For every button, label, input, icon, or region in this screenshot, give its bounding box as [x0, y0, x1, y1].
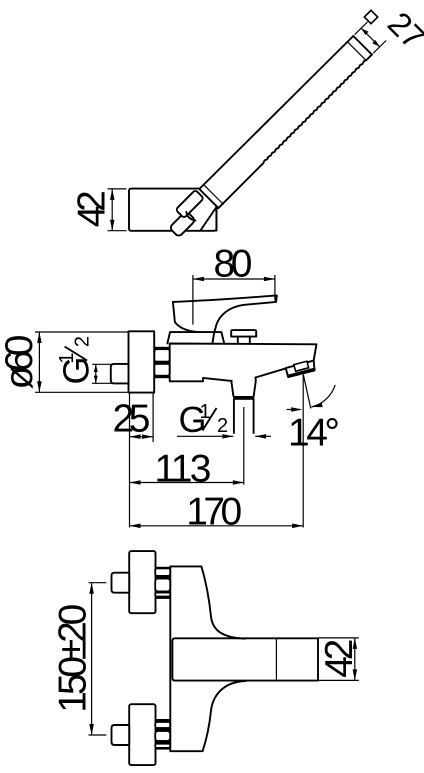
head right edge	[216, 206, 218, 230]
body panel	[170, 566, 245, 751]
handle end seam	[348, 42, 367, 61]
svg-text:150±20: 150±20	[52, 604, 95, 713]
dimension square 27 (handle section)	[355, 5, 424, 57]
dimension 25 (flange depth)	[113, 394, 154, 528]
spout divider	[275, 638, 277, 680]
dimension G half (outlet)	[177, 399, 271, 440]
outlet centerline	[243, 407, 245, 485]
svg-text:ø60: ø60	[0, 335, 41, 390]
joint web line	[201, 207, 217, 231]
bottom union nut (plan)	[155, 719, 170, 750]
handle lower edge with grip serration	[218, 55, 372, 209]
dimension 42 (spout width)	[318, 638, 361, 681]
dimension 14 degrees	[287, 375, 341, 528]
square symbol	[364, 10, 377, 23]
svg-text:42: 42	[71, 190, 114, 227]
dimension 170	[130, 490, 304, 533]
shower head	[129, 189, 216, 231]
body and spout	[170, 344, 317, 382]
dimension 42 (head height)	[71, 189, 127, 231]
hose nut	[169, 211, 196, 238]
bottom wall flange (plan)	[129, 704, 155, 765]
handle of hand shower	[199, 36, 372, 208]
svg-text:42: 42	[318, 639, 361, 678]
wall G half stub	[111, 364, 129, 384]
diverter knob	[231, 330, 256, 337]
svg-text:14°: 14°	[288, 412, 340, 455]
top union nut (plan)	[155, 567, 170, 599]
top G half stub (plan)	[112, 573, 130, 593]
svg-text:170: 170	[186, 490, 242, 533]
aerator	[286, 361, 315, 378]
handle end cap	[353, 36, 372, 55]
dimension 113	[130, 447, 244, 490]
bottom G half stub (plan)	[112, 725, 130, 745]
svg-text:1: 1	[56, 352, 78, 363]
handle bottom end edge	[199, 189, 218, 208]
spout (plan)	[172, 638, 318, 680]
lever handle	[173, 295, 277, 343]
svg-text:113: 113	[155, 447, 212, 490]
shower outlet stub	[231, 378, 256, 397]
svg-text:2: 2	[72, 336, 94, 347]
union nut	[154, 347, 170, 378]
dimension diameter 60 (flange)	[0, 332, 128, 392]
svg-text:80: 80	[214, 243, 253, 286]
dimension G half (wall stub)	[55, 336, 112, 385]
handle upper edge	[199, 36, 353, 189]
top wall flange (plan)	[129, 551, 155, 613]
joint block	[176, 190, 204, 218]
dimension 150 plus-minus 20	[52, 583, 107, 735]
swivel arc	[186, 212, 195, 221]
wall flange	[129, 331, 155, 392]
handle bottom joint seam	[204, 185, 224, 205]
dimension 80 (lever)	[193, 243, 275, 325]
svg-text:25: 25	[113, 398, 151, 441]
svg-text:2: 2	[217, 415, 228, 437]
lever left edge	[173, 302, 201, 332]
lever collar	[167, 332, 224, 343]
